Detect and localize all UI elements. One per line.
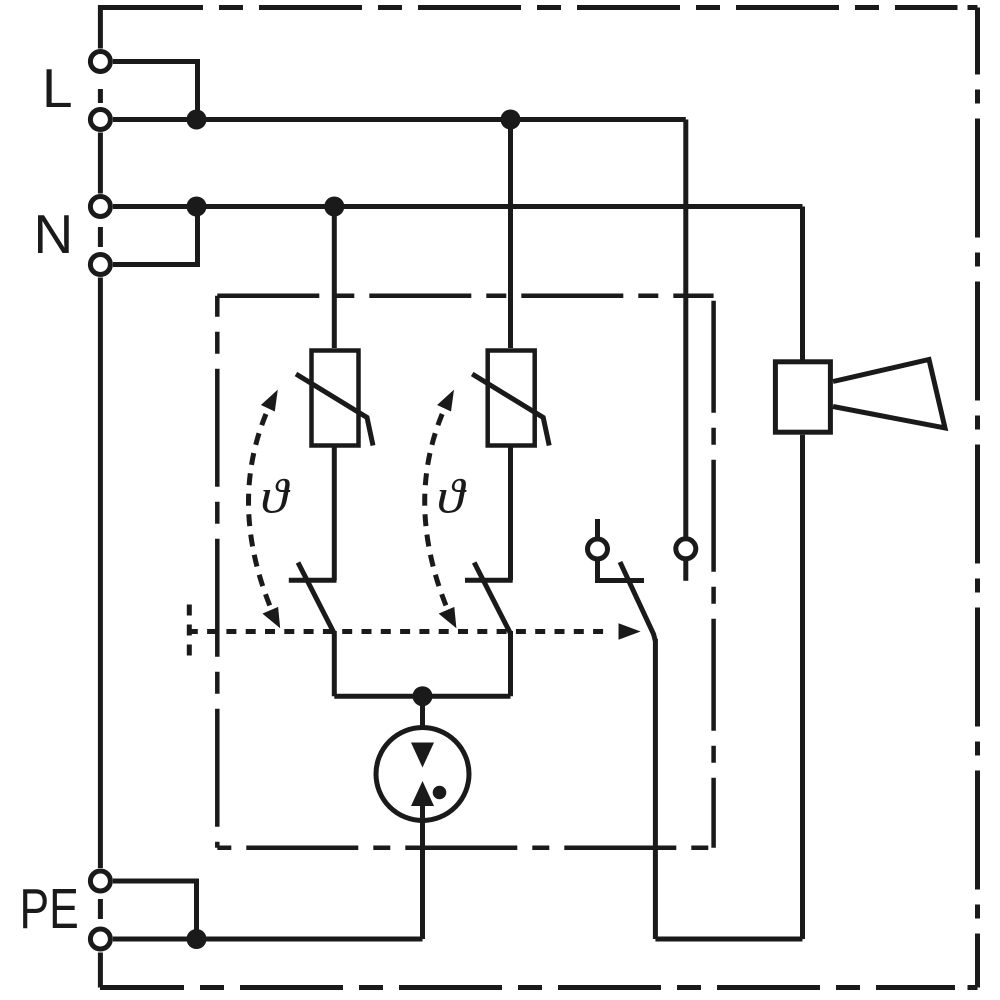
remote contact blade [620,562,655,641]
outer device boundary right edge [975,8,980,988]
junction dot varistor1 tap on N [324,197,344,217]
wire common to horn bottom [655,937,802,942]
wire loop from N lower terminal [113,207,198,265]
wire loop from L upper terminal [113,62,198,120]
wire L bus [113,117,686,122]
wire N bus down to horn top [800,207,805,360]
wire varistor1 to disconnector1 [332,448,337,581]
terminal circle N upper [90,197,110,217]
svg-text:N: N [34,203,74,265]
horn funnel [833,360,945,429]
inner module boundary top edge [217,293,713,298]
terminal circle PE upper [90,871,110,891]
svg-text:ϑ: ϑ [260,470,291,524]
disconnector2 fixed contact [465,578,513,583]
wire N to varistor1 [332,207,337,349]
mechanical linkage arrowhead [619,623,641,639]
disconnector1 blade [298,563,334,634]
thermal arc 2 top arrowhead [437,390,454,412]
inner module boundary right edge [711,296,716,848]
gas discharge tube lower arrow [411,781,434,806]
solid left edge between N and PE terminals [98,278,103,869]
terminal circle L upper [90,52,110,72]
junction dot PE loop [187,929,207,949]
svg-text:PE: PE [20,877,79,941]
mechanical linkage dashed line [188,629,611,634]
thermal arc 1 bottom arrowhead [262,607,280,628]
inner module boundary left edge [215,296,220,848]
terminal circle L lower [90,110,110,130]
wire junction to gas discharge tube [420,696,425,744]
disconnector1 fixed contact [289,578,337,583]
terminal circle N lower [90,255,110,275]
wire PE bus [113,937,423,942]
thermal arc 2 [425,414,451,618]
gas discharge tube circle [376,728,469,821]
dash between PE terminals [98,899,103,919]
thermal arc 1 [249,414,275,618]
wire joining both varistor branches [334,694,510,699]
remote contact right terminal circle [676,539,696,559]
horn body [775,362,830,432]
varistor2 diagonal stroke [472,374,549,446]
varistor1 diagonal stroke [296,374,373,446]
varistor1 body [312,351,359,446]
junction dot N loop [187,197,207,217]
wire remote contact common down [653,639,658,939]
wire below disconnector1 [332,631,337,696]
inner module boundary bottom edge [217,846,713,851]
gas discharge tube upper arrow [411,743,434,768]
outer device boundary top edge [100,5,958,10]
outer boundary left edge segment above terminal L1 [98,5,103,49]
wire L to remote contact right terminal [683,120,688,539]
solid left edge between L and N terminals [98,133,103,194]
svg-text:ϑ: ϑ [437,470,468,524]
mechanical linkage T-bar [187,605,192,658]
thermal arc 2 bottom arrowhead [439,607,457,628]
remote contact fixed contact wire [598,560,645,581]
wire up to horn [800,435,805,939]
junction dot above gas discharge tube [413,686,433,706]
terminal circle PE lower [90,929,110,949]
remote contact left terminal stub [595,519,600,539]
dash between N terminals [98,227,103,247]
disconnector2 blade [474,563,510,634]
wire gas discharge tube to PE bus [420,805,425,939]
varistor2 body [488,351,535,446]
wire varistor2 to disconnector2 [508,448,513,581]
wire L to varistor2 [508,120,513,349]
svg-text:L: L [42,57,73,119]
outer boundary bottom-right corner piece [968,985,978,990]
junction dot L loop [187,110,207,130]
outer boundary top-right corner piece [968,5,978,10]
wire N bus [113,204,803,209]
dash between L terminals [98,89,103,103]
left edge segment below PE to bottom corner [98,953,103,988]
remote contact right terminal stub [683,559,688,581]
thermal arc 1 top arrowhead [261,390,278,412]
gas discharge tube gas dot [433,786,447,800]
outer device boundary bottom edge [100,985,955,990]
wire below disconnector2 [508,631,513,696]
remote contact left terminal circle [588,539,608,559]
junction dot varistor2 tap on L [501,110,521,130]
wire loop from PE upper terminal [113,881,197,939]
